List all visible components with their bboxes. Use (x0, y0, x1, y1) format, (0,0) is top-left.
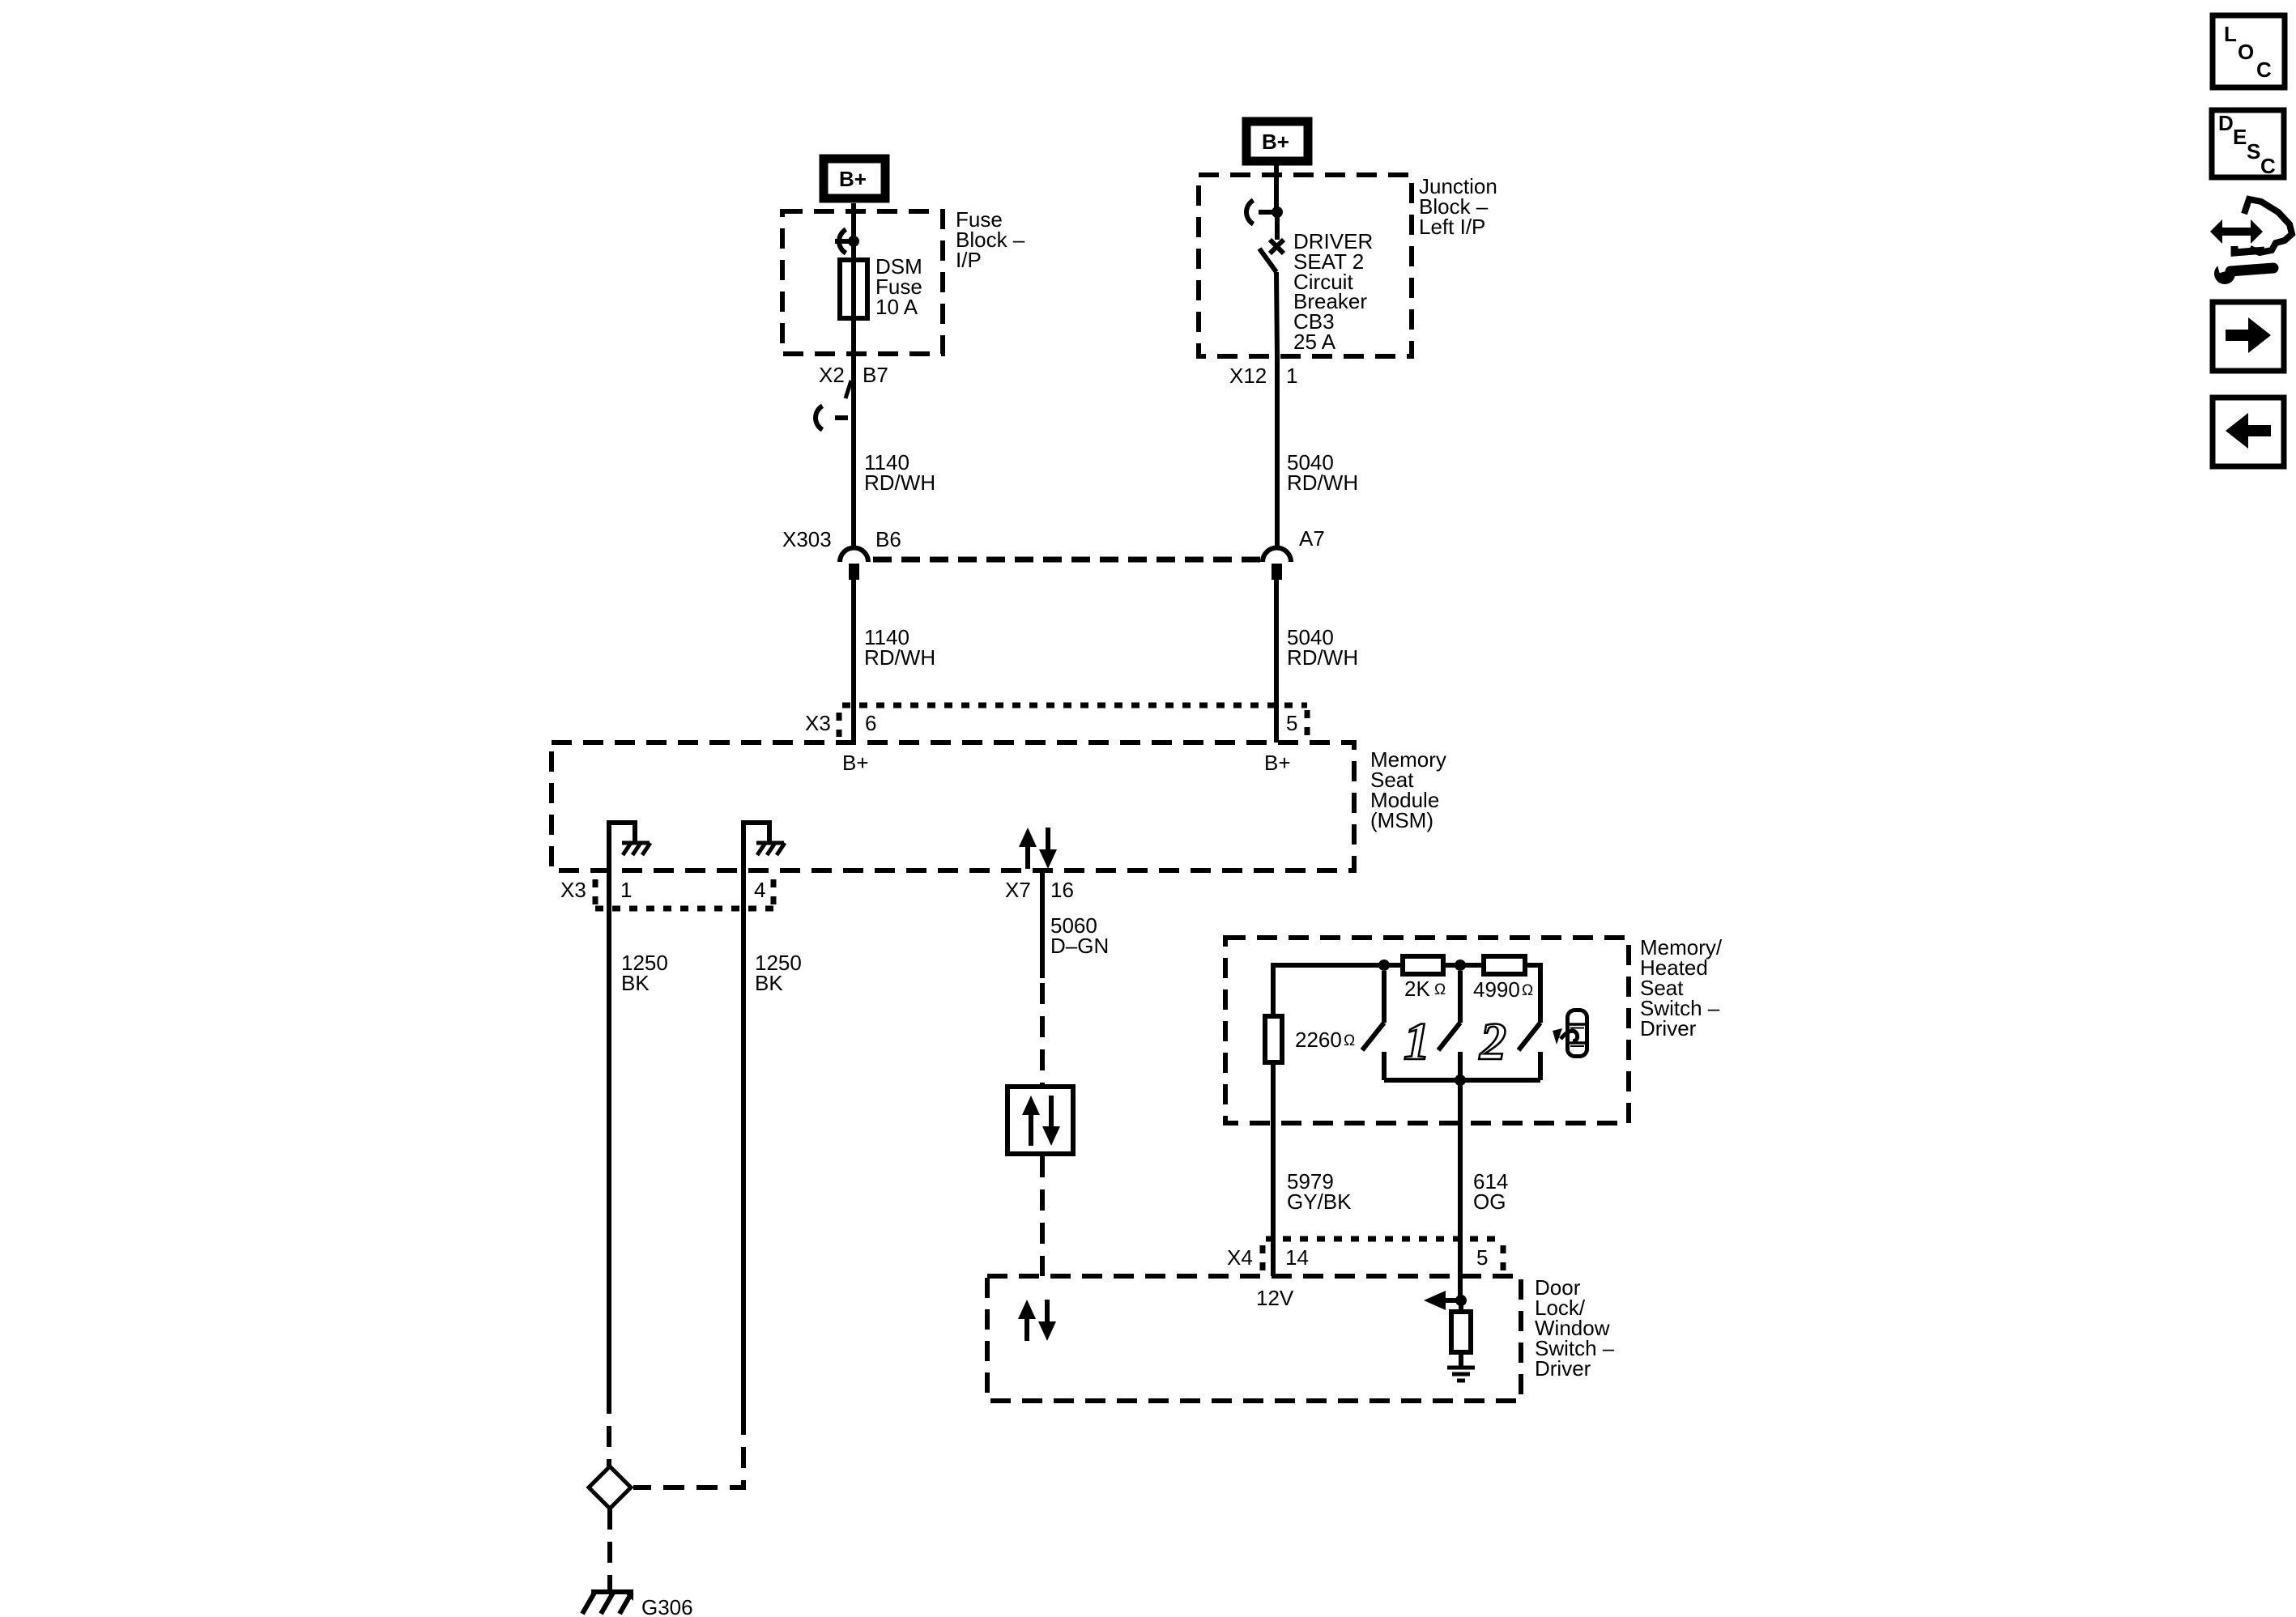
wire 1140 RD/WH label (upper) (864, 450, 935, 495)
svg-text:1: 1 (620, 878, 632, 902)
dashed wire below motor box (1040, 1156, 1045, 1276)
svg-text:1: 1 (1404, 1012, 1430, 1071)
svg-text:I/P: I/P (956, 248, 982, 272)
wire 5040 RD/WH label (upper) (1287, 450, 1358, 495)
motor connector box with up/down arrows (1007, 1087, 1073, 1154)
connector X3 labels (6,5) (805, 711, 1297, 735)
svg-text:A7: A7 (1299, 526, 1325, 551)
junction dot node 2 (1455, 960, 1466, 971)
svg-text:Ω: Ω (1434, 981, 1446, 998)
connector X7 pin 16 labels (1005, 878, 1074, 902)
ground G306 symbol (582, 1592, 633, 1614)
wire from dot through fuse (851, 241, 856, 354)
memory seat module MSM dashed box (552, 743, 1354, 870)
circuit breaker CB3 symbol (1259, 240, 1284, 356)
connector row X3 lower (pins 1 and 4) dotted (595, 879, 776, 908)
svg-text:X4: X4 (1227, 1245, 1253, 1270)
resistor 4990 label (1473, 977, 1533, 1002)
svg-text:L: L (2224, 22, 2237, 46)
svg-text:X3: X3 (560, 878, 586, 902)
svg-text:O: O (2238, 40, 2254, 64)
door lock/window switch dashed box (987, 1276, 1521, 1401)
svg-text:2260: 2260 (1295, 1028, 1342, 1052)
clip connector symbol in fuse block (835, 229, 854, 253)
diagnostic wrench icon (2210, 199, 2292, 284)
clip connector symbol in junction block (1246, 200, 1277, 223)
svg-text:X303: X303 (782, 527, 832, 551)
svg-text:X2: X2 (819, 363, 845, 387)
wire from B+ to fuse block (851, 203, 856, 241)
wire below fuse block with pass-through tick (846, 354, 854, 546)
svg-text:5: 5 (1476, 1245, 1488, 1270)
wire from dot to breaker (1275, 212, 1280, 240)
svg-text:12V: 12V (1256, 1286, 1294, 1310)
svg-text:E: E (2233, 125, 2247, 149)
dashed connector link X303 (873, 557, 1260, 563)
resistor in door lock switch (1451, 1300, 1471, 1366)
svg-text:14: 14 (1285, 1245, 1309, 1270)
svg-text:Driver: Driver (1535, 1356, 1591, 1381)
connector pin under arc A7 (1272, 564, 1282, 580)
wire 1250 BK label (left) (621, 951, 668, 995)
ground symbol inside MSM (pin 1) (609, 823, 650, 870)
svg-text:2K: 2K (1404, 977, 1430, 1001)
door lock switch label (1535, 1275, 1615, 1381)
in-line connector arc B6 (840, 548, 868, 563)
LOC navigation box (2213, 15, 2285, 87)
switch 2 (memory position 2) (1438, 971, 1460, 1080)
svg-text:X7: X7 (1005, 878, 1031, 902)
switch 3 (set/car) (1519, 1023, 1540, 1080)
fuse DSM label (875, 254, 922, 319)
svg-text:5: 5 (1286, 711, 1297, 735)
wire to splice (left, dashed) (607, 1393, 611, 1466)
connector row X3 (pins 6 and 5) dotted (839, 705, 1307, 737)
resistor 2260 label (1295, 1028, 1355, 1052)
svg-text:RD/WH: RD/WH (1287, 645, 1358, 670)
memory/heated seat switch dashed box (1225, 938, 1629, 1123)
ground symbol inside MSM (pin 4) (743, 823, 785, 870)
connector X4 labels (14,5) (1227, 1245, 1488, 1270)
svg-text:4: 4 (754, 878, 765, 902)
resistor 4990 ohm (1484, 956, 1525, 974)
fuse block I/P dashed box (782, 211, 943, 354)
svg-text:4990: 4990 (1473, 977, 1520, 1002)
svg-text:B6: B6 (875, 527, 901, 551)
wire to splice (right, dashed) (633, 1414, 743, 1487)
svg-text:C: C (2260, 154, 2276, 178)
svg-text:RD/WH: RD/WH (864, 645, 935, 670)
wire 5979 GY/BK (1271, 1062, 1276, 1276)
wire 5060 D-GN label (1050, 913, 1109, 958)
svg-text:10 A: 10 A (875, 295, 918, 319)
svg-text:(MSM): (MSM) (1370, 808, 1433, 832)
fuse block label (956, 207, 1025, 272)
switch output bus (1384, 1078, 1540, 1083)
connector row X4 dotted (1263, 1239, 1504, 1271)
motor up/down arrows inside MSM (1019, 828, 1057, 869)
circuit breaker CB3 label (1293, 229, 1373, 354)
connector pin under arc B6 (849, 564, 859, 580)
fuse DSM symbol (840, 260, 867, 318)
svg-text:6: 6 (865, 711, 876, 735)
B+ power symbol (right) (1246, 121, 1308, 161)
svg-text:S: S (2247, 139, 2260, 164)
connector X12 pin 1 labels (1229, 364, 1297, 388)
dashed wire below splice (607, 1508, 612, 1584)
svg-text:RD/WH: RD/WH (864, 470, 935, 495)
svg-text:B+: B+ (839, 167, 867, 191)
splice diamond (589, 1466, 631, 1508)
svg-text:2: 2 (1479, 1012, 1506, 1071)
wire 1250 BK label (right) (755, 951, 802, 995)
switch 1 (memory position 1) (1362, 971, 1384, 1080)
DESC navigation box (2212, 110, 2284, 178)
MSM label (1370, 747, 1446, 832)
svg-text:Ω: Ω (1522, 982, 1533, 999)
resistor 2K label (1404, 977, 1446, 1001)
svg-text:25 A: 25 A (1293, 330, 1336, 354)
svg-text:BK: BK (621, 971, 650, 995)
svg-text:X12: X12 (1229, 364, 1267, 388)
B+ power symbol (left) (824, 159, 885, 198)
svg-text:G306: G306 (641, 1595, 693, 1617)
svg-text:B+: B+ (842, 751, 869, 775)
svg-text:1: 1 (1286, 364, 1297, 388)
wire 5040 RD/WH label (lower) (1287, 625, 1358, 670)
svg-text:B+: B+ (1264, 751, 1291, 775)
junction block label (1419, 174, 1497, 239)
svg-text:D–GN: D–GN (1050, 934, 1109, 958)
svg-text:GY/BK: GY/BK (1287, 1189, 1352, 1214)
in-line connector arc A7 (1263, 548, 1291, 563)
connector X303 pin B6 labels (782, 527, 901, 551)
svg-text:Ω: Ω (1344, 1032, 1355, 1049)
ground symbol in door lock switch (1447, 1368, 1475, 1381)
svg-text:RD/WH: RD/WH (1287, 470, 1358, 495)
wire 5040 upper segment (1275, 356, 1280, 546)
clip connector symbol below X2 (816, 406, 848, 429)
svg-text:16: 16 (1050, 878, 1074, 902)
svg-text:BK: BK (755, 971, 783, 995)
junction dot node 1 (1378, 960, 1390, 971)
wire 1140 RD/WH label (lower) (864, 625, 935, 670)
resistor 2260 ohm (1265, 1016, 1282, 1062)
resistor 2K ohm (1403, 956, 1443, 974)
junction dot in fuse block (848, 236, 859, 247)
junction dot in junction block (1272, 206, 1283, 218)
wire 5060 solid segment (1040, 870, 1045, 978)
junction block dashed box (1199, 175, 1412, 356)
wire 1140 lower segment (851, 580, 856, 743)
svg-text:B7: B7 (863, 363, 888, 387)
motor up/down arrows inside door lock switch (1018, 1300, 1056, 1341)
wire 614 OG (1458, 1080, 1463, 1300)
svg-text:D: D (2218, 111, 2234, 135)
arrow to door lock circuitry (1424, 1291, 1461, 1310)
svg-text:C: C (2256, 57, 2272, 82)
wire 5979 GY/BK label (1287, 1169, 1352, 1214)
junction dot on bus (1455, 1074, 1466, 1086)
connector X3 lower labels (1,4) (560, 878, 765, 902)
connector X2 pin B7 labels (819, 363, 888, 387)
svg-text:B+: B+ (1262, 130, 1289, 154)
wire from B+ into junction block (1274, 162, 1279, 212)
ground wire 1250 BK (pin 4) (741, 870, 746, 1414)
svg-text:Left I/P: Left I/P (1419, 215, 1485, 239)
ground wire 1250 BK (pin 1) (607, 870, 611, 1393)
memory/heated seat switch label (1640, 935, 1723, 1040)
svg-text:X3: X3 (805, 711, 831, 735)
wire stub to G306 (607, 1584, 612, 1592)
next page arrow box (2213, 302, 2284, 371)
wire 5060 dashed segment (1040, 983, 1045, 1085)
svg-text:Driver: Driver (1640, 1016, 1697, 1040)
wire 5040 lower segment (1274, 580, 1279, 743)
junction dot in door lock switch (1455, 1295, 1467, 1306)
previous page arrow box (2213, 398, 2284, 466)
car icon (1553, 1011, 1587, 1057)
svg-text:OG: OG (1473, 1189, 1506, 1214)
switch feed wire and resistor network (1273, 965, 1540, 1023)
wire 614 OG label (1473, 1169, 1508, 1214)
